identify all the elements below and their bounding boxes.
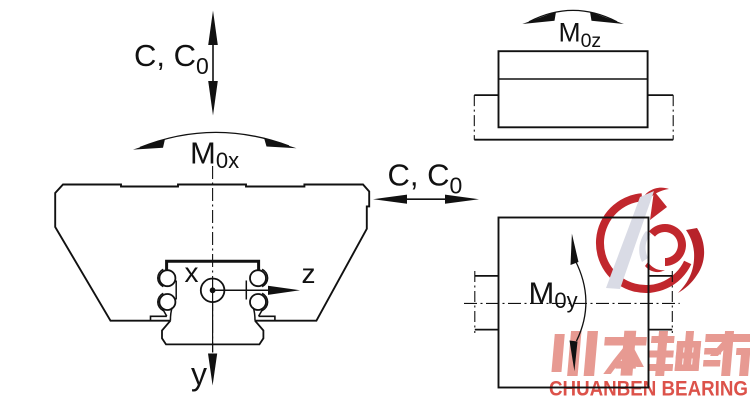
char 轴 <box>651 336 675 343</box>
block divider line <box>499 78 648 80</box>
svg-text:M0y: M0y <box>529 276 578 314</box>
svg-text:z: z <box>302 258 316 289</box>
ball upper-left <box>159 270 175 286</box>
right stub <box>649 276 673 330</box>
ball lower-right <box>250 294 266 310</box>
rail base <box>162 321 263 345</box>
watermark logo peak arrow <box>650 191 667 220</box>
char 承 <box>704 334 750 356</box>
rail end side centerlines <box>474 95 673 140</box>
left stub <box>475 276 499 330</box>
watermark logo slash stem <box>606 191 654 289</box>
watermark logo bowl hook <box>645 262 665 272</box>
stub outer centerline edges <box>475 271 673 333</box>
rail head top (thick) <box>167 261 259 270</box>
svg-text:y: y <box>191 356 207 392</box>
ball upper-right <box>250 270 266 286</box>
rail end bottom <box>474 139 673 141</box>
ball grooves right crescents <box>262 269 268 310</box>
svg-text:C, C0: C, C0 <box>134 38 209 79</box>
ball grooves left crescents <box>158 269 164 310</box>
watermark logo bowl gray shade <box>639 231 651 262</box>
carriage outline <box>55 185 369 321</box>
y axis arrow <box>208 354 217 386</box>
arc arrow M0y <box>570 234 586 372</box>
rail lip right <box>259 316 275 320</box>
arc arrow M0z <box>522 10 624 24</box>
svg-text:x: x <box>185 257 199 288</box>
axis origin circle <box>201 279 225 303</box>
rail neck left <box>163 308 173 321</box>
svg-text:C, C0: C, C0 <box>388 158 463 199</box>
arrow C,C0 horizontal <box>373 195 479 204</box>
rail end top edges <box>474 94 673 96</box>
char 川 <box>551 334 564 372</box>
vertical centerline left figure <box>212 166 214 353</box>
rail side faces <box>175 281 177 300</box>
arc arrow M0x <box>133 132 297 149</box>
watermark logo bowl crescent <box>649 224 686 266</box>
char 本 <box>604 337 647 346</box>
centerline through circle <box>212 279 214 353</box>
z axis arrow <box>215 286 300 295</box>
svg-text:M0z: M0z <box>559 18 602 53</box>
watermark logo top crest <box>641 188 669 202</box>
ball lower-left <box>159 294 175 310</box>
arrow C,C0 vertical <box>208 11 218 116</box>
watermark chinese text <box>551 331 750 376</box>
axis origin dot <box>210 287 216 293</box>
block bottom-right <box>499 218 649 388</box>
horizontal centerline <box>464 302 680 304</box>
rail lip left <box>151 316 167 320</box>
svg-text:M0x: M0x <box>190 136 239 174</box>
block top-right <box>499 51 648 127</box>
rail neck right <box>253 308 263 321</box>
watermark logo tail <box>678 228 704 293</box>
watermark logo ring <box>596 188 704 293</box>
